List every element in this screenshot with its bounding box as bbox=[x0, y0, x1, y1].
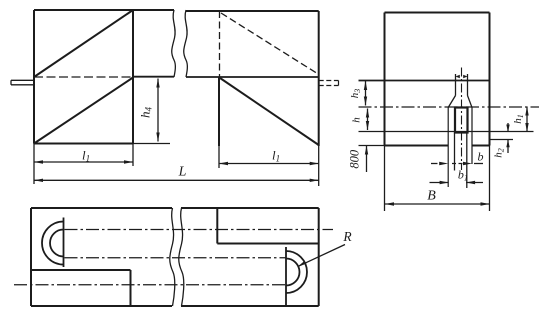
section bottom left extension bbox=[359, 145, 385, 147]
svg-text:h: h bbox=[351, 117, 363, 123]
dimension b1 bbox=[430, 182, 484, 184]
plan break wavy line right bbox=[179, 208, 184, 306]
svg-text:В: В bbox=[427, 189, 436, 204]
plan groove centerline bottom bbox=[65, 257, 287, 259]
section groove depth line bbox=[359, 131, 534, 133]
svg-text:l1: l1 bbox=[272, 148, 280, 164]
slot neck tiny arrows bbox=[456, 75, 468, 78]
svg-text:h3: h3 bbox=[349, 89, 362, 99]
dimension h4 bbox=[133, 79, 170, 144]
plan left step bbox=[31, 270, 131, 306]
front view right block hidden diagonal bbox=[221, 13, 317, 73]
dimension h1 bbox=[526, 107, 528, 133]
section side extensions down bbox=[385, 146, 490, 212]
dimension B bbox=[385, 203, 490, 205]
front view break wavy line left bbox=[172, 10, 176, 77]
front view right block hidden vertical bbox=[219, 11, 221, 77]
front view right shaft stub hidden bbox=[319, 81, 339, 86]
front view left block upper diagonal bbox=[34, 10, 133, 77]
front view mid line left band bbox=[133, 76, 174, 78]
slot inner rectangle bbox=[455, 108, 468, 133]
svg-text:h2: h2 bbox=[492, 148, 505, 158]
dimension L bbox=[34, 179, 319, 181]
front view right block lower diagonal bbox=[220, 78, 319, 145]
front view right block left edge bbox=[218, 77, 220, 146]
slot inner wall extensions bbox=[455, 133, 467, 189]
dimension h bbox=[367, 109, 369, 131]
dimension h2 bbox=[507, 123, 509, 153]
section centerline bbox=[359, 106, 540, 108]
front view left shaft stub bbox=[11, 80, 34, 85]
front view left block lower diagonal bbox=[34, 78, 133, 144]
svg-text:800: 800 bbox=[348, 149, 362, 169]
svg-text:R: R bbox=[342, 229, 352, 244]
plan right step bbox=[217, 208, 318, 244]
dimension b bbox=[431, 163, 483, 165]
plan main centerline bbox=[14, 284, 286, 286]
slot centerline bbox=[461, 68, 463, 171]
plan groove centerline top bbox=[65, 229, 334, 231]
leader R bbox=[299, 245, 346, 267]
section short right line bbox=[490, 139, 514, 141]
svg-text:h1: h1 bbox=[512, 114, 525, 124]
front view mid line right bbox=[186, 76, 319, 78]
dimension l1 left bbox=[34, 144, 133, 185]
plan view outline bbox=[31, 208, 319, 306]
front view left block mid hidden line bbox=[34, 76, 133, 78]
svg-text:L: L bbox=[178, 165, 187, 180]
svg-text:h4: h4 bbox=[137, 107, 153, 119]
slot flare right bbox=[468, 96, 473, 108]
section top surface line bbox=[359, 80, 490, 82]
front view right block right edge bbox=[318, 11, 320, 146]
svg-text:b: b bbox=[478, 150, 484, 164]
front view left block outline bbox=[34, 10, 174, 144]
plan left half-ring bbox=[42, 218, 64, 268]
slot flare left bbox=[448, 96, 455, 108]
svg-text:l1: l1 bbox=[82, 148, 90, 164]
plan break wavy line left bbox=[170, 208, 175, 306]
slot outer wall left bbox=[447, 108, 449, 188]
plan right half-ring bbox=[286, 247, 307, 305]
front view break wavy line right bbox=[184, 10, 188, 77]
slot outer wall right bbox=[471, 108, 473, 165]
dimension h3 bbox=[365, 81, 367, 106]
dimension 800 bbox=[366, 146, 368, 173]
slot neck walls bbox=[456, 74, 468, 96]
front view right block top edge bbox=[186, 10, 319, 12]
section view outline bbox=[385, 13, 490, 146]
dimension l1 right bbox=[219, 146, 319, 186]
